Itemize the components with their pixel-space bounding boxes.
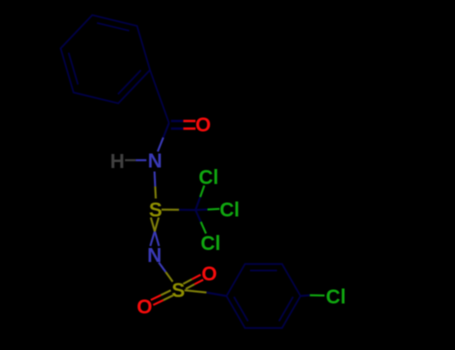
wire: S2 to ring2, olive half: [185, 290, 207, 292]
svg-text:H: H: [110, 151, 124, 173]
S1=N2 double bond, blue bottom halves: [155, 232, 159, 246]
wire: N to carbonyl C, blue half near N: [158, 138, 164, 152]
wire: H-N bond gray half: [125, 159, 136, 161]
svg-text:Cl: Cl: [201, 233, 221, 255]
S1=N2 double bond drawn as crossed lines, olive top halves: [151, 218, 155, 232]
ring2 inner aromatic lines: [250, 270, 277, 272]
svg-text:O: O: [195, 115, 211, 137]
wire: CCl3 C to bottom Cl, green half: [201, 222, 206, 234]
S2=O double bond lower-left, olive halves: [161, 290, 171, 295]
benzene ring 2 (4-chlorophenyl), navy C-C bonds: [227, 264, 301, 328]
svg-text:Cl: Cl: [326, 287, 346, 309]
wire: ring2 to Cl, navy half: [301, 294, 310, 297]
svg-text:Cl: Cl: [220, 200, 240, 222]
S2=O double bond upper-right, olive halves: [183, 279, 192, 284]
S2=O double bond lower-left, red halves: [151, 295, 161, 300]
wire: CCl3 C to right Cl, green half: [208, 208, 220, 211]
benzene ring 1 (phenyl of benzamide), C-C bonds dark navy: [61, 15, 150, 103]
wire: N2 to S2 bond, olive half: [166, 272, 173, 282]
wire: N1 to S1 bond, blue half: [154, 172, 157, 187]
wire: S2 to ring2, navy half: [207, 293, 227, 297]
wire: N to carbonyl C, navy half near C: [163, 123, 169, 138]
carbonyl C=O double bond: navy halves near C: [171, 120, 183, 122]
wire: CCl3 C to right Cl, navy half: [196, 209, 208, 212]
wire: H-N bond blue half: [136, 159, 147, 161]
S2=O double bond upper-right, red halves: [192, 275, 201, 280]
wire: ring1 C1 to carbonyl C (navy C-C bond): [150, 70, 169, 123]
svg-text:Cl: Cl: [199, 167, 219, 189]
wire: ring2 to Cl, green half: [310, 294, 325, 296]
svg-text:N: N: [148, 151, 162, 173]
carbonyl C=O double bond: red halves near O: [183, 120, 195, 122]
wire: CCl3 C to top Cl, navy half: [196, 197, 201, 210]
wire: N2 to S2 bond, blue half: [159, 263, 166, 273]
wire: CCl3 C to bottom Cl, navy half: [196, 210, 201, 222]
svg-text:O: O: [202, 263, 218, 285]
svg-text:O: O: [137, 297, 153, 319]
wire: N1 to S1 bond, olive half: [154, 187, 157, 199]
wire: S1 to CCl3 carbon, olive half: [162, 209, 180, 211]
wire: S1 to CCl3 carbon, navy half: [179, 209, 196, 211]
wire: CCl3 C to top Cl, green half: [200, 186, 204, 198]
ring1 inner aromatic lines: [118, 70, 141, 94]
